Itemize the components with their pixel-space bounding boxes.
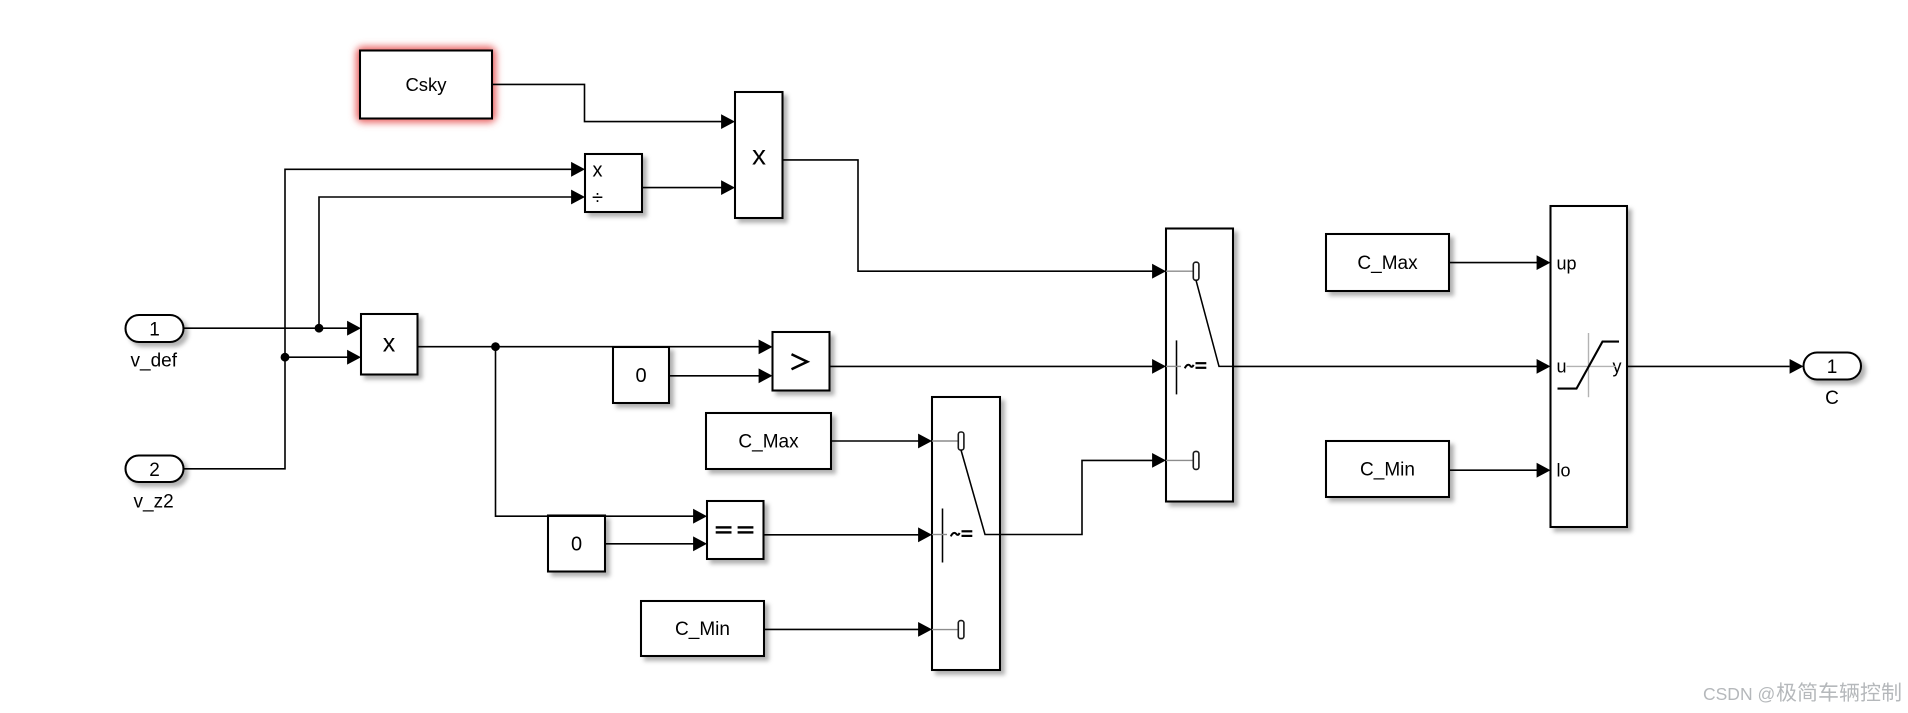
constant C_Min (right) bbox=[1326, 441, 1449, 497]
wire inport1 to product in1 bbox=[184, 327, 348, 329]
svg-text:1: 1 bbox=[1827, 357, 1838, 378]
wire product out to relational > in1 bbox=[418, 346, 760, 348]
inport 1 v_def bbox=[126, 315, 184, 372]
svg-text:0: 0 bbox=[635, 365, 646, 387]
saturation dynamic block bbox=[1551, 206, 1628, 527]
svg-text:v_z2: v_z2 bbox=[134, 492, 174, 513]
product block tall x bbox=[735, 92, 783, 218]
svg-text:C: C bbox=[1825, 388, 1839, 409]
svg-text:lo: lo bbox=[1557, 461, 1571, 481]
svg-text:up: up bbox=[1557, 254, 1577, 274]
svg-text:v_def: v_def bbox=[131, 351, 178, 372]
junction dot bbox=[315, 324, 324, 333]
wire constant 0 to == in2 bbox=[605, 543, 694, 545]
wire tall product out to switch2 in1 bbox=[783, 160, 1153, 271]
constant 0 (lower) bbox=[548, 516, 605, 572]
wire C_Min to switch1 in3 bbox=[764, 628, 919, 630]
relational operator > bbox=[773, 332, 830, 391]
svg-text:÷: ÷ bbox=[592, 187, 603, 209]
svg-text:1: 1 bbox=[149, 320, 160, 341]
wire > out to switch2 in2 bbox=[830, 365, 1153, 367]
svg-text:0: 0 bbox=[571, 534, 582, 556]
constant C_Max (left) bbox=[706, 413, 831, 469]
wire inport2 to divide x in1 bbox=[184, 169, 572, 469]
inport 2 v_z2 bbox=[126, 456, 184, 513]
svg-text:C_Max: C_Max bbox=[1357, 253, 1418, 274]
junction dot bbox=[281, 353, 290, 362]
svg-text:Csky: Csky bbox=[405, 74, 447, 95]
divide block x÷ bbox=[585, 154, 642, 212]
svg-text:C_Min: C_Min bbox=[1360, 460, 1415, 481]
wire divide out to tall product in2 bbox=[642, 187, 722, 189]
wire branch down to == in1 bbox=[496, 347, 694, 517]
wire branch to product in2 bbox=[285, 356, 348, 358]
svg-text:CSDN @: CSDN @ bbox=[1703, 684, 1775, 704]
constant 0 (upper) bbox=[613, 347, 669, 403]
outport 1 C bbox=[1804, 353, 1862, 410]
svg-text:C_Min: C_Min bbox=[675, 619, 730, 640]
wire C_Max to switch1 in1 bbox=[831, 440, 919, 442]
wire branch up to divide ÷ in2 bbox=[319, 197, 572, 328]
constant Csky (selected, red glow) bbox=[356, 47, 496, 123]
switch 2 bbox=[1166, 229, 1233, 502]
constant C_Min (left) bbox=[641, 601, 764, 656]
wire constant 0 to > in2 bbox=[669, 375, 759, 377]
junction dot bbox=[491, 342, 500, 351]
constant C_Max (right) bbox=[1326, 234, 1449, 291]
wire C_Min to saturation lo bbox=[1449, 469, 1537, 471]
svg-text:2: 2 bbox=[149, 460, 160, 481]
wire C_Max to saturation up bbox=[1449, 262, 1537, 264]
watermark CSDN bbox=[1703, 682, 1900, 704]
product block x bbox=[361, 314, 418, 375]
switch 1 bbox=[932, 397, 1000, 670]
wire switch2 out to saturation u bbox=[1233, 365, 1537, 367]
relational operator == bbox=[707, 501, 764, 559]
wire Csky to tall product in1 bbox=[492, 84, 722, 121]
svg-text:x: x bbox=[752, 140, 766, 171]
svg-text:C_Max: C_Max bbox=[738, 432, 799, 453]
svg-text:x: x bbox=[593, 160, 603, 182]
svg-text:x: x bbox=[383, 330, 396, 358]
svg-text:u: u bbox=[1557, 357, 1567, 377]
wire saturation out to outport bbox=[1627, 365, 1790, 367]
wire == out to switch1 in2 bbox=[764, 534, 919, 536]
wire switch1 out to switch2 in3 bbox=[1000, 460, 1153, 534]
